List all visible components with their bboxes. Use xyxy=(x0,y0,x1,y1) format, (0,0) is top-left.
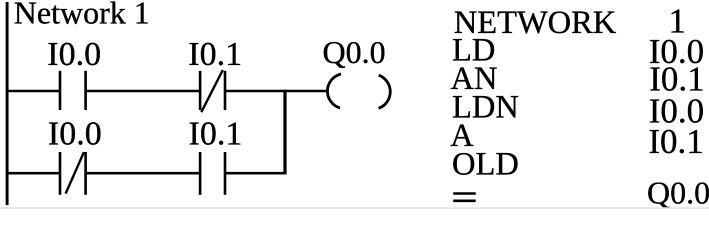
STL line 4: LDN I0.0 xyxy=(452,90,704,131)
contact I0.0 (normally closed) rung2 xyxy=(60,152,86,195)
svg-text:I0.1: I0.1 xyxy=(188,36,242,73)
svg-text:Network 1: Network 1 xyxy=(14,0,150,30)
wire rung2: rail to contact I0.0 xyxy=(6,172,60,175)
svg-text:I0.0: I0.0 xyxy=(47,36,101,73)
STL line 5: A I0.1 xyxy=(450,118,704,161)
wire rung2: contact I0.1 to branch junction xyxy=(225,172,286,175)
contact I0.0 (normally open) rung1 xyxy=(60,71,86,110)
coil Q0.0 xyxy=(327,74,390,108)
faint scan artifact line along bottom xyxy=(0,207,709,209)
wire rung2: between contact I0.0 and contact I0.1 xyxy=(86,172,200,175)
STL line 7: = Q0.0 (equals sign drawn as two bars) xyxy=(453,174,709,210)
wire rung1: contact I0.1 to coil (through branch junction) xyxy=(225,90,328,93)
wire rung1: rail to contact I0.0 xyxy=(6,90,60,93)
left power rail xyxy=(6,2,9,205)
STL line 1: NETWORK 1 xyxy=(454,1,686,41)
svg-text:I0.0: I0.0 xyxy=(48,116,102,153)
svg-text:OLD: OLD xyxy=(452,147,519,183)
svg-text:Q0.0: Q0.0 xyxy=(323,34,386,70)
STL line 6: OLD xyxy=(452,147,519,183)
contact I0.1 (normally closed) rung1 xyxy=(200,70,225,112)
svg-text:I0.1: I0.1 xyxy=(189,116,243,153)
wire rung1: between contact I0.0 and contact I0.1 xyxy=(86,90,200,93)
STL line 2: LD I0.0 xyxy=(452,32,704,71)
STL line 3: AN I0.1 xyxy=(451,60,705,99)
svg-text:Q0.0: Q0.0 xyxy=(647,174,709,210)
branch vertical wire joining rung2 to rung1 xyxy=(283,90,286,175)
svg-text:I0.1: I0.1 xyxy=(648,122,703,161)
contact I0.1 (normally open) rung2 xyxy=(200,152,225,195)
